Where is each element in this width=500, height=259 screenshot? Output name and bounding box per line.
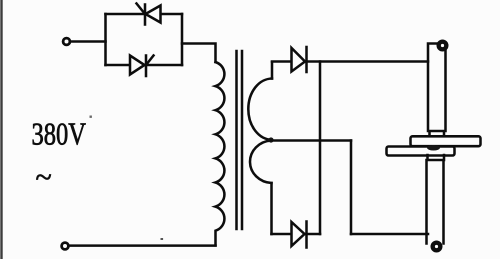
SCR box top wire bbox=[106, 13, 183, 16]
wire T1 to SCR box bbox=[71, 40, 106, 43]
secondary winding top lead bbox=[271, 62, 274, 79]
upper workpiece sheet bbox=[411, 136, 481, 146]
lower electrode rod bbox=[427, 155, 445, 244]
transformer core line 1 bbox=[235, 51, 238, 229]
diode VD1 (top) bbox=[292, 47, 307, 72]
diode VD2 (bottom) bbox=[292, 222, 307, 248]
wire secondary top to electrode (cathode bus top) bbox=[272, 60, 428, 63]
secondary winding upper half bbox=[248, 79, 272, 140]
thyristor V1 (top, pointing left) bbox=[137, 4, 161, 25]
center tap junction bbox=[268, 137, 273, 142]
svg-text:380V: 380V bbox=[32, 117, 87, 152]
SCR box right side wire bbox=[181, 14, 184, 65]
center tap wire vertical bbox=[350, 141, 353, 235]
thyristor V2 (bottom, pointing right) bbox=[130, 56, 154, 77]
secondary winding bottom lead bbox=[270, 183, 273, 234]
cathode bus vertical wire bbox=[319, 62, 322, 235]
center tap wire horizontal bbox=[271, 139, 351, 142]
speck near 380V bbox=[90, 116, 92, 118]
secondary winding lower half bbox=[250, 141, 272, 184]
lower contact roller bbox=[433, 243, 441, 251]
weld nugget bbox=[427, 145, 440, 150]
upper contact roller bbox=[439, 42, 447, 50]
svg-text:~: ~ bbox=[36, 161, 52, 194]
lower workpiece sheet bbox=[387, 147, 455, 156]
wire transformer to bottom terminal bbox=[69, 244, 216, 247]
speck on bottom wire bbox=[161, 238, 164, 240]
wire to lower electrode bbox=[351, 233, 428, 236]
terminal T1 (top input) bbox=[63, 38, 70, 45]
upper electrode rod bbox=[428, 44, 446, 138]
page left border bbox=[0, 0, 2, 259]
SCR box bottom wire bbox=[106, 64, 183, 67]
terminal T2 (bottom input) bbox=[62, 243, 69, 250]
transformer core line 2 bbox=[241, 51, 244, 229]
wire secondary bottom to diode VD2 bbox=[272, 233, 321, 236]
wire SCR box to transformer bbox=[182, 44, 216, 63]
transformer primary winding bbox=[216, 62, 225, 245]
SCR box left side wire bbox=[104, 14, 107, 65]
